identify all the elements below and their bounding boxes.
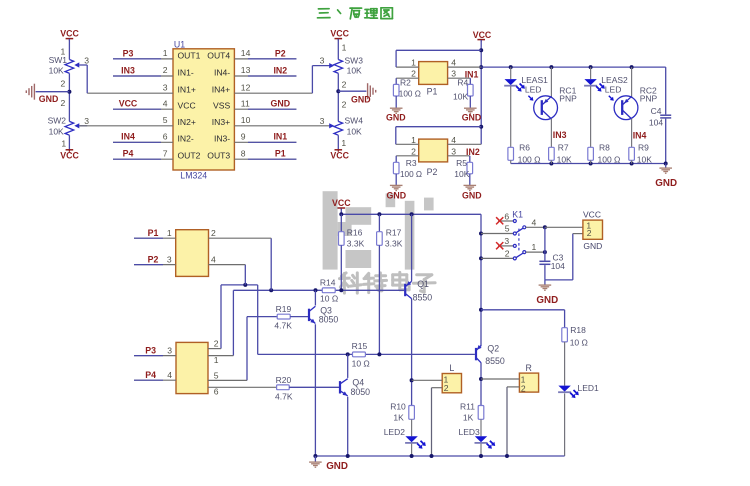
svg-text:8550: 8550	[485, 356, 505, 366]
svg-text:R4: R4	[457, 78, 468, 88]
svg-text:6: 6	[163, 132, 168, 142]
svg-text:VCC: VCC	[330, 28, 349, 38]
svg-text:C4: C4	[651, 106, 662, 116]
svg-text:SW4: SW4	[345, 115, 364, 125]
svg-text:VSS: VSS	[213, 101, 230, 111]
svg-text:4: 4	[163, 98, 168, 108]
svg-text:GND: GND	[386, 112, 406, 122]
svg-text:8050: 8050	[319, 314, 339, 324]
svg-text:4: 4	[451, 135, 456, 145]
svg-text:OUT2: OUT2	[178, 151, 201, 161]
svg-text:100 Ω: 100 Ω	[598, 154, 621, 164]
svg-text:OUT4: OUT4	[207, 50, 230, 60]
svg-text:R15: R15	[352, 341, 368, 351]
svg-text:SW3: SW3	[345, 55, 364, 65]
svg-text:IN4-: IN4-	[214, 67, 230, 77]
svg-text:R17: R17	[386, 228, 402, 238]
svg-text:GND: GND	[462, 191, 482, 201]
svg-text:IN2: IN2	[273, 65, 287, 75]
svg-text:R9: R9	[638, 142, 649, 152]
svg-text:104: 104	[649, 117, 663, 127]
svg-text:P1: P1	[148, 228, 159, 238]
svg-text:10K: 10K	[454, 169, 469, 179]
svg-text:R8: R8	[599, 142, 610, 152]
svg-text:4: 4	[451, 58, 456, 68]
svg-text:GND: GND	[583, 241, 602, 251]
svg-text:3: 3	[320, 116, 325, 126]
svg-text:12: 12	[241, 82, 251, 92]
svg-text:104: 104	[551, 261, 565, 271]
svg-text:L: L	[449, 363, 454, 373]
svg-text:GND: GND	[536, 295, 558, 306]
svg-text:10K: 10K	[347, 66, 362, 76]
svg-text:6: 6	[504, 211, 509, 221]
svg-text:VCC: VCC	[60, 28, 79, 38]
svg-text:IN2+: IN2+	[178, 117, 196, 127]
svg-text:1: 1	[167, 228, 172, 238]
svg-text:IN3: IN3	[121, 65, 135, 75]
svg-text:LED2: LED2	[384, 427, 406, 437]
svg-text:P2: P2	[275, 48, 286, 58]
svg-text:SW1: SW1	[49, 55, 68, 65]
svg-text:10K: 10K	[557, 154, 572, 164]
svg-text:P1: P1	[427, 87, 438, 97]
svg-text:R5: R5	[456, 158, 467, 168]
svg-text:4: 4	[167, 370, 172, 380]
svg-text:3: 3	[451, 69, 456, 79]
svg-text:2: 2	[505, 249, 510, 259]
svg-text:IN1-: IN1-	[178, 67, 194, 77]
svg-text:LM324: LM324	[180, 170, 207, 180]
svg-text:VCC: VCC	[332, 198, 351, 208]
svg-text:6: 6	[214, 386, 219, 396]
svg-text:1K: 1K	[393, 413, 404, 423]
svg-text:3: 3	[163, 82, 168, 92]
svg-text:P3: P3	[145, 345, 156, 355]
svg-text:3: 3	[167, 254, 172, 264]
svg-text:VCC: VCC	[330, 151, 349, 161]
svg-text:Q4: Q4	[352, 377, 364, 387]
svg-text:P2: P2	[427, 167, 438, 177]
svg-text:VCC: VCC	[473, 30, 492, 40]
svg-text:1: 1	[61, 138, 66, 148]
svg-text:OUT3: OUT3	[207, 151, 230, 161]
svg-text:P3: P3	[123, 48, 134, 58]
svg-text:R20: R20	[276, 375, 292, 385]
svg-text:4.7K: 4.7K	[274, 321, 292, 331]
svg-text:3: 3	[167, 345, 172, 355]
svg-text:13: 13	[241, 65, 251, 75]
svg-text:P1: P1	[275, 149, 286, 159]
svg-text:2: 2	[444, 383, 449, 393]
svg-text:LED1: LED1	[578, 383, 600, 393]
svg-text:IN4: IN4	[121, 132, 135, 142]
svg-text:4: 4	[211, 254, 216, 264]
svg-text:R7: R7	[558, 142, 569, 152]
svg-text:LED3: LED3	[459, 427, 481, 437]
svg-text:10 Ω: 10 Ω	[352, 358, 370, 368]
svg-text:2: 2	[342, 80, 347, 90]
svg-text:3: 3	[84, 116, 89, 126]
svg-text:P4: P4	[145, 370, 156, 380]
svg-text:2: 2	[163, 65, 168, 75]
svg-text:R6: R6	[519, 142, 530, 152]
svg-text:10K: 10K	[453, 92, 468, 102]
svg-text:8050: 8050	[351, 387, 371, 397]
svg-text:PNP: PNP	[640, 94, 658, 104]
svg-text:2: 2	[587, 228, 592, 238]
svg-text:GND: GND	[462, 112, 482, 122]
svg-text:1K: 1K	[463, 413, 474, 423]
svg-text:100 Ω: 100 Ω	[399, 90, 421, 99]
svg-text:8550: 8550	[413, 293, 433, 303]
svg-text:Q2: Q2	[487, 343, 499, 353]
svg-text:7: 7	[163, 148, 168, 158]
svg-text:GND: GND	[655, 178, 677, 189]
svg-text:OUT1: OUT1	[178, 50, 201, 60]
svg-text:IN1+: IN1+	[178, 85, 196, 95]
svg-text:2: 2	[211, 228, 216, 238]
svg-text:1: 1	[342, 42, 347, 52]
svg-text:10K: 10K	[347, 127, 362, 137]
svg-text:VCC: VCC	[583, 210, 601, 220]
svg-text:R2: R2	[400, 78, 411, 88]
svg-text:1: 1	[341, 138, 346, 148]
svg-text:11: 11	[241, 98, 250, 108]
svg-text:4: 4	[532, 217, 537, 227]
svg-text:IN3+: IN3+	[212, 117, 230, 127]
svg-text:GND: GND	[271, 99, 291, 109]
svg-text:3: 3	[451, 146, 456, 156]
svg-text:P4: P4	[123, 149, 134, 159]
svg-text:5: 5	[505, 224, 510, 234]
svg-text:R10: R10	[390, 402, 406, 412]
svg-text:GND: GND	[387, 191, 407, 201]
svg-text:2: 2	[521, 383, 526, 393]
svg-text:1: 1	[411, 58, 416, 68]
svg-text:2: 2	[411, 146, 416, 156]
svg-text:R16: R16	[347, 228, 363, 238]
svg-text:1: 1	[532, 242, 537, 252]
svg-text:5: 5	[163, 115, 168, 125]
svg-text:R11: R11	[460, 402, 475, 412]
svg-text:4.7K: 4.7K	[275, 391, 293, 401]
svg-text:10 Ω: 10 Ω	[320, 293, 338, 303]
svg-text:3.3K: 3.3K	[385, 239, 403, 249]
svg-text:10K: 10K	[637, 154, 652, 164]
svg-text:VCC: VCC	[119, 99, 138, 109]
svg-text:5: 5	[214, 370, 219, 380]
svg-text:IN2-: IN2-	[178, 134, 194, 144]
svg-text:GND: GND	[326, 461, 348, 472]
svg-text:2: 2	[214, 339, 219, 349]
svg-text:100 Ω: 100 Ω	[518, 154, 541, 164]
svg-text:LED: LED	[525, 84, 542, 94]
svg-text:8: 8	[241, 148, 246, 158]
svg-text:LED: LED	[605, 84, 622, 94]
svg-text:100 Ω: 100 Ω	[400, 170, 422, 179]
svg-text:R: R	[526, 363, 532, 373]
svg-text:U1: U1	[174, 40, 185, 50]
svg-text:R19: R19	[276, 304, 292, 314]
svg-text:2: 2	[61, 98, 66, 108]
svg-text:IN4+: IN4+	[212, 85, 230, 95]
svg-text:R3: R3	[406, 158, 417, 168]
svg-text:3: 3	[84, 56, 89, 66]
svg-text:K1: K1	[512, 210, 523, 220]
svg-text:2: 2	[411, 69, 416, 79]
svg-text:IN2: IN2	[466, 147, 480, 157]
svg-text:GND: GND	[39, 94, 59, 104]
svg-text:R14: R14	[320, 278, 336, 288]
svg-text:SW2: SW2	[48, 116, 67, 126]
svg-text:10K: 10K	[49, 66, 64, 76]
svg-text:3: 3	[320, 56, 325, 66]
svg-text:10 Ω: 10 Ω	[570, 337, 588, 347]
svg-text:IN1: IN1	[273, 132, 287, 142]
svg-text:9: 9	[241, 132, 246, 142]
svg-text:GND: GND	[351, 94, 371, 104]
svg-text:1: 1	[163, 48, 168, 58]
svg-text:IN3-: IN3-	[214, 134, 230, 144]
svg-text:PNP: PNP	[559, 94, 577, 104]
svg-text:R18: R18	[570, 325, 586, 335]
svg-text:2: 2	[61, 79, 66, 89]
svg-text:VCC: VCC	[60, 151, 79, 161]
svg-text:10: 10	[241, 115, 251, 125]
svg-text:3: 3	[504, 236, 509, 246]
svg-text:VCC: VCC	[178, 101, 196, 111]
svg-text:IN3: IN3	[553, 130, 567, 140]
svg-text:2: 2	[342, 100, 347, 110]
svg-text:3.3K: 3.3K	[347, 239, 365, 249]
svg-text:P2: P2	[148, 254, 159, 264]
svg-text:1: 1	[411, 135, 416, 145]
svg-text:10K: 10K	[49, 126, 64, 136]
svg-text:14: 14	[241, 48, 251, 58]
svg-text:1: 1	[214, 355, 219, 365]
svg-text:IN4: IN4	[633, 131, 647, 141]
svg-text:Q1: Q1	[417, 279, 429, 289]
